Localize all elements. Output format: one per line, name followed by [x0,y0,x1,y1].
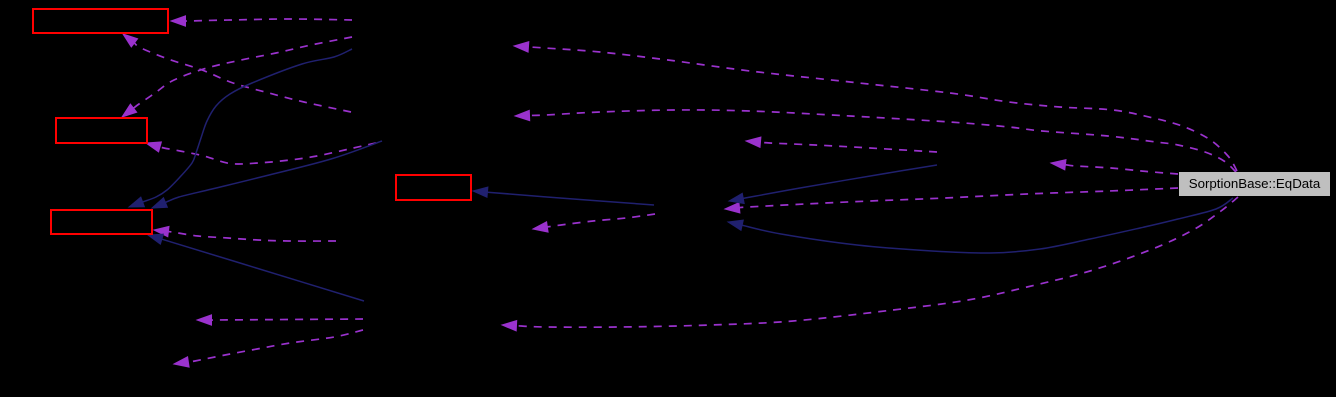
edge dashed to 746,141 [746,137,937,152]
edge dashed to 533,229 [533,214,655,232]
edge dashed horizontal y320 [197,315,363,325]
blue curve into box3 top [129,49,352,207]
edge dashed gray to 502,325 [502,197,1238,331]
edge dashed into box1 right [171,16,352,26]
edge dashed into box1 bottom [123,34,351,112]
node box2 (red, truncated) [55,117,148,144]
blue line to 729,201 [729,165,937,204]
edge dashed gray to 514,46 [514,42,1237,171]
edge dashed into arrow 174,364 [174,330,363,367]
blue line into box3 topright [152,141,382,208]
edge dashed into box3 right [154,226,336,241]
blue line into box4 [473,187,654,205]
edge dashed gray to 725,209 [725,188,1178,213]
node box3 (red, truncated) [50,209,153,235]
edge dashed gray to 515,116 [515,110,1236,172]
node box1 (red, truncated) [32,8,169,34]
blue line into box3 corner [148,234,364,301]
edge dashed gray to 1051,163 [1051,160,1178,174]
edge dashed into box2 corner [146,142,376,164]
node box4 (red, truncated) [395,174,472,201]
edge dashed into box2 top [122,37,352,117]
node SorptionBase::EqData (current, gray) [1179,172,1330,196]
blue curve gray to 728,222 [728,198,1233,253]
